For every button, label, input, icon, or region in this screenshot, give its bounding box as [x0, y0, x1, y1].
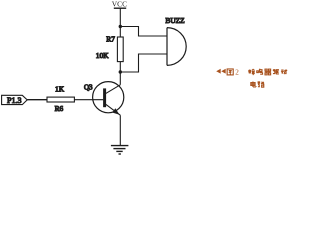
annotation text line 2 [251, 81, 264, 87]
svg-text:R6: R6 [55, 104, 64, 113]
power VCC [112, 0, 127, 9]
svg-text:1K: 1K [55, 84, 65, 93]
svg-text:VCC: VCC [112, 0, 127, 9]
svg-text:P1.3: P1.3 [7, 96, 21, 105]
char feng (蜂) [249, 69, 255, 75]
char dian (电) [251, 81, 256, 86]
wire VCC rail to R7 [119, 8, 121, 37]
wire buzzer bottom lead [120, 54, 167, 72]
char tu (图) [227, 69, 233, 75]
annotation text line 1 [227, 69, 287, 77]
svg-text:Q3: Q3 [84, 84, 93, 92]
resistor R6 [47, 97, 74, 102]
annotation arrows [216, 69, 226, 74]
char ming (鸣) [257, 69, 263, 74]
char dong (动) [281, 69, 287, 74]
ground [111, 146, 128, 154]
wire R6 to base [74, 99, 103, 101]
char qi (器) [265, 69, 271, 75]
wire R7 bottom to collector [119, 62, 121, 85]
svg-text:10K: 10K [96, 51, 109, 60]
transistor Q3 [93, 82, 124, 116]
char lu (路) [258, 82, 264, 87]
svg-text:2: 2 [235, 69, 239, 77]
svg-text:BUZZ: BUZZ [165, 16, 185, 25]
wire P1.3 to R6 [27, 99, 47, 101]
port P1.3 [2, 95, 28, 105]
node junction J1 [119, 25, 122, 28]
wire buzzer top lead [120, 27, 167, 37]
svg-text:R7: R7 [106, 34, 115, 43]
buzzer BUZZ [167, 28, 186, 66]
node junction J2 [119, 70, 122, 73]
wire emitter to ground [119, 115, 121, 145]
char qu (驱) [273, 70, 279, 74]
resistor R7 [117, 37, 123, 62]
